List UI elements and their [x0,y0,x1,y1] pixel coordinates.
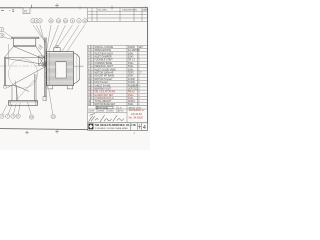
last table row [88,100,140,103]
inlet cone upper line [6,58,44,64]
motor foot left [48,86,53,89]
title small header row2 [88,110,124,113]
svg-text:MOTOR 11KW-4P: MOTOR 11KW-4P [94,73,113,75]
sheet right border [147,8,149,131]
svg-text:VIB. ISOLATOR RB: VIB. ISOLATOR RB [94,91,115,94]
svg-text:V-BELT 3V-560: V-BELT 3V-560 [94,85,111,87]
balloon 12 [63,19,67,23]
balloon 16 bottom [51,114,55,118]
base end plate right [35,101,37,106]
motor body [47,52,74,86]
revision table top right [88,8,148,22]
svg-text:MOTOR BASE SET: MOTOR BASE SET [94,103,115,106]
motor fan cowl [74,53,80,84]
balloon 1 bottom [11,114,15,118]
svg-text:THE OSAKA BLOWER MFG. CO., LTD: THE OSAKA BLOWER MFG. CO., LTD. [95,124,137,127]
balloon 6 bottom [16,114,20,118]
svg-text:12 HIGASHI 2-CHOME OSAKA JAPAN: 12 HIGASHI 2-CHOME OSAKA JAPAN [95,127,129,130]
logo row box [88,123,148,131]
stamp box [96,106,113,109]
zone tick top far-right [145,6,147,9]
svg-text:SS41: SS41 [128,69,134,71]
bulkhead foot gusset [43,97,47,101]
left balloon numbers [0,28,3,37]
svg-text:CHKD: CHKD [108,111,114,113]
approval signatures [89,114,124,123]
zone tick top [55,3,59,7]
leader lines top cluster [2,25,85,115]
bearing bracket with cross brace [39,56,45,66]
svg-text:UCP-212: UCP-212 [128,89,138,91]
transition cone right [36,46,44,57]
svg-text:TEFC: TEFC [128,73,134,75]
svg-text:APVD: APVD [118,110,124,113]
pedestal left legs [12,86,17,101]
svg-text:SS41: SS41 [128,63,134,65]
svg-text:DESCRIPTION: DESCRIPTION [123,10,138,12]
base frame channel [9,101,38,106]
zone tick bottom mid [55,130,59,134]
svg-text:FLEXIBLE JOINT: FLEXIBLE JOINT [94,60,113,62]
balloon 11 [83,19,87,23]
sheet bottom border [0,129,148,131]
balloon 10 [49,19,53,23]
svg-text:SET: SET [138,47,143,49]
flange foot pad [4,86,7,89]
svg-text:INLET BOX ASSY: INLET BOX ASSY [94,52,113,55]
hub center [44,63,46,65]
svg-text:RUBBER: RUBBER [128,85,138,87]
inlet flange hatch blob [38,45,42,50]
scroll bottom left corner [4,86,29,92]
svg-text:SS41: SS41 [128,66,134,68]
base end plate left [9,101,11,106]
bottom balloon numbers [1,115,55,119]
svg-text:INLET GUIDE VANE: INLET GUIDE VANE [94,68,116,71]
scroll circle [8,59,37,88]
svg-text:N: N [24,10,27,14]
svg-text:GUARD NET SET: GUARD NET SET [94,94,113,97]
svg-text:SS41: SS41 [128,53,134,55]
svg-text:SS41: SS41 [128,57,134,59]
scroll top line [4,57,44,59]
svg-text:TOTAL WEIGHT: TOTAL WEIGHT [94,100,112,103]
hub dark knot [44,62,46,66]
svg-text:ADJUST MT BASE: ADJUST MT BASE [94,75,114,78]
inlet cone lower line [8,68,44,88]
scroll left flange [4,58,5,86]
zone tick top mid-right [79,6,81,10]
balloon 7 bottom [6,114,10,118]
cowl seam [76,54,78,82]
balloon 14 left lower [0,33,4,37]
bulkhead plate [45,38,46,98]
svg-text:BEARING UNIT: BEARING UNIT [94,88,111,91]
svg-text:SS400: SS400 [128,47,136,49]
balloon 2 [77,19,81,23]
svg-text:No. REV.: No. REV. [99,10,108,12]
inlet box [14,38,36,46]
red parts rows [88,91,140,100]
red material note [129,108,144,120]
motor foot right [67,86,73,89]
company logo mark [88,124,93,130]
svg-text:4: 4 [143,125,146,131]
north/stamp box top-left [23,8,30,14]
svg-text:SS41: SS41 [128,98,134,100]
svg-text:MATERIAL A: MATERIAL A [129,108,144,112]
svg-text:SCROLL CASING: SCROLL CASING [94,46,113,49]
svg-text:PEDESTAL SUPT: PEDESTAL SUPT [94,65,113,68]
svg-text:FC200: FC200 [128,82,136,84]
logo row dividers [131,123,142,131]
pedestal left slant edge [15,81,18,101]
motor terminal box [54,48,60,52]
balloon 15 bottom [29,115,33,119]
svg-text:DSGN: DSGN [88,111,94,113]
svg-text:410KG: 410KG [128,101,135,103]
svg-text:- 1: - 1 [9,8,15,13]
inlet side vertical [8,44,10,66]
svg-text:SS41: SS41 [128,76,134,78]
sheet top border [0,7,148,9]
svg-text:INLET DAMPER: INLET DAMPER [94,56,111,59]
motor nameplate panel [56,62,66,78]
svg-text:APPROVED: APPROVED [97,106,108,109]
svg-text:FC200: FC200 [128,79,136,81]
balloon 5 [38,19,42,23]
pedestal diagonal brace [17,80,34,100]
svg-text:MOTOR PULLEY: MOTOR PULLEY [94,79,113,81]
base top inner line [9,101,38,103]
balloon 9 [70,19,74,23]
svg-text:FAN PULLEY: FAN PULLEY [94,81,109,84]
pedestal right legs [34,74,36,101]
parts rows text [88,46,143,91]
inlet cone big diagonal [14,46,44,58]
balloon 8 left upper [0,27,4,31]
svg-text:4-10: 4-10 [118,107,122,109]
svg-text:DATE: DATE [143,9,149,12]
shaft centerline stub [74,64,84,71]
balloon 4 bottom [0,114,4,118]
balloon 3 [31,19,35,23]
svg-text:AS-34.52: AS-34.52 [131,112,142,116]
balloon 13 [56,19,60,23]
svg-text:No. 34-5520: No. 34-5520 [129,116,144,120]
inlet cone hub [42,62,47,67]
inlet box top flange [11,37,39,38]
motor flange hatch [46,52,47,85]
top balloon numbers [32,20,87,23]
extra parts table row 19 [88,105,148,107]
vertical centerline [45,38,47,103]
svg-text:COMMON BASE: COMMON BASE [94,62,112,65]
balloon 4 [34,19,38,23]
svg-text:SS41: SS41 [128,104,134,106]
svg-text:IMPELLER B/W: IMPELLER B/W [94,50,111,52]
drawing class cell [138,124,141,128]
svg-text:RB-50: RB-50 [128,92,135,94]
transition cone left [4,46,13,57]
svg-text:CR x 2: CR x 2 [128,60,136,62]
svg-text:COMPANION FLG: COMPANION FLG [94,97,114,100]
horizontal centerline [0,65,84,67]
motor eyebolt [56,45,58,47]
zone tick bottom left [25,131,29,134]
motor cooling fins [47,53,73,84]
bulkhead hatch [45,41,46,93]
svg-text:SS41: SS41 [128,95,134,97]
paper background [0,0,150,150]
zone tick top right [111,6,113,10]
svg-text:DRWN: DRWN [98,111,105,113]
motor flange ring [48,52,50,86]
